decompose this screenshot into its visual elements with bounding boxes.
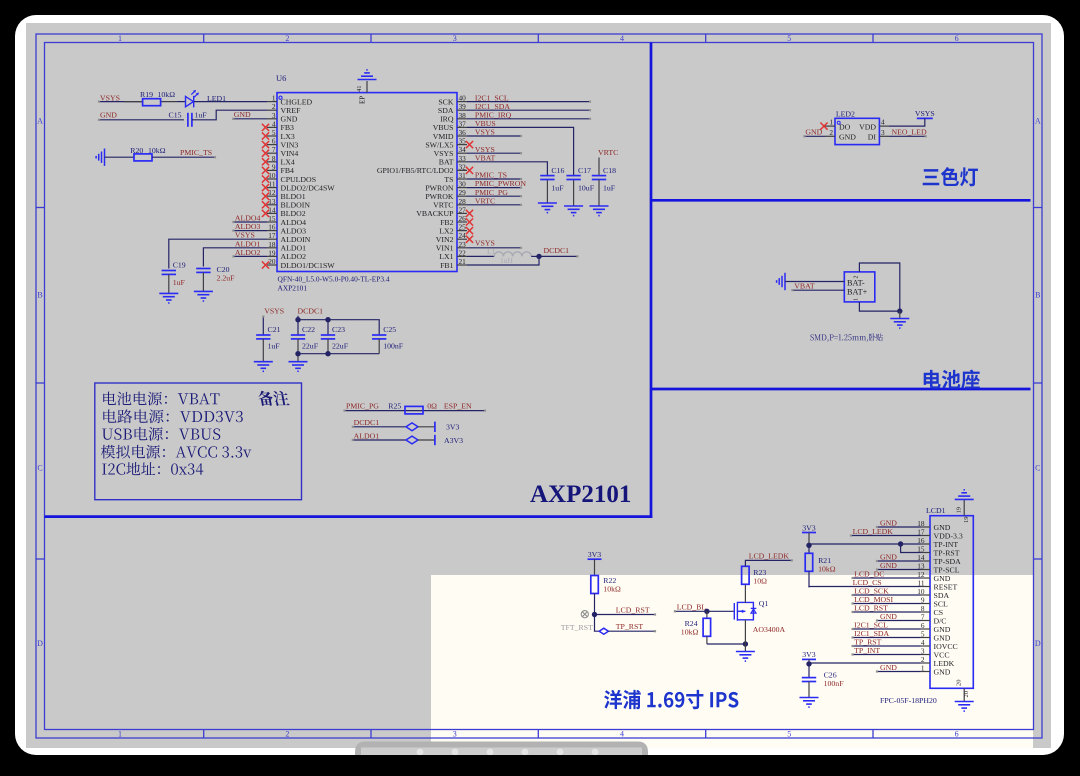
ground C20 [194,291,213,301]
battery holder BT1 body [844,272,875,302]
svg-text:A3V3: A3V3 [444,436,463,445]
svg-text:GND: GND [934,667,951,676]
resistor R23 [742,566,750,584]
wire ALDO3 to pin 16 [233,230,267,232]
svg-text:6: 6 [955,34,959,43]
svg-text:2: 2 [285,34,289,43]
wire jumper to 3V3 bar [418,426,435,428]
svg-text:VSYS: VSYS [475,128,495,137]
svg-text:VBAT: VBAT [794,282,815,291]
wire ALDO4 to pin 15 [233,221,267,223]
section divider AXP2101/bottom [45,515,653,518]
svg-text:C23: C23 [332,325,345,334]
wire LCD_LEDK LCD1 pin 17 [851,535,921,537]
wire GND LCD1 pin 13 [877,569,921,571]
wire ground to R20 [105,156,135,158]
svg-text:PMIC_TS: PMIC_TS [180,148,212,157]
LCD1 pin stubs [921,527,930,672]
wire LCD_DC LCD1 pin 12 [853,577,921,579]
wire I2C1_SCL LCD1 pin 6 [853,628,921,630]
U6 no-connect marks right pins 35 32 27 26 25 24 [466,141,473,243]
wire DCDC1 to jumper [353,426,406,428]
jumper diamond DCDC1-3V3 [406,423,418,431]
capacitor C17 [573,180,575,207]
svg-text:GND: GND [100,111,117,120]
wire LED1 to U6 pin 1 [194,101,267,103]
svg-text:10kΩ: 10kΩ [158,90,176,99]
svg-text:1uF: 1uF [268,342,281,351]
svg-text:DO: DO [839,122,851,131]
capacitor C16 [546,180,548,204]
svg-text:3: 3 [453,34,457,43]
svg-text:LED2: LED2 [836,109,855,118]
svg-text:QFN-40_L5.0-W5.0-P0.40-TL-EP3.: QFN-40_L5.0-W5.0-P0.40-TL-EP3.4 [278,275,390,284]
ground C16 [538,203,557,213]
svg-text:4: 4 [881,117,885,126]
ground C18 [590,206,609,216]
svg-text:DI: DI [868,133,877,142]
svg-text:LCD_RST: LCD_RST [616,606,650,615]
svg-text:C21: C21 [268,325,281,334]
svg-text:GND: GND [880,663,897,672]
svg-text:VBAT: VBAT [475,153,496,162]
resistor R25 [405,406,423,414]
section title 三色灯 [923,167,978,186]
wire LCD_BL to Q1 gate [675,610,734,612]
wire jumper to A3V3 bar [418,439,435,441]
svg-text:10kΩ: 10kΩ [603,585,621,594]
svg-text:20: 20 [956,680,963,687]
wire 3V3 to R21 node [808,533,810,546]
wire junction to DCDC1 stub [539,255,577,257]
wire LCD1 pin 15 TP-RST riser [901,544,921,553]
LED LED1 [186,90,199,107]
ground BT1 [899,311,901,318]
svg-text:FPC-05F-18PH20: FPC-05F-18PH20 [880,696,937,705]
svg-text:VSYS: VSYS [915,109,935,118]
capacitor C25 [372,335,386,339]
wire LCD_RST LCD1 pin 8 [853,611,921,613]
LCD1 pin names [934,523,963,677]
svg-text:LCD_LEDK: LCD_LEDK [853,527,894,536]
svg-text:NEO_LED: NEO_LED [892,128,927,137]
svg-text:C18: C18 [603,166,616,175]
wire LCD1 pin 16 TP-INT to R21 node [809,543,921,545]
svg-text:U6: U6 [276,73,286,83]
svg-text:DLDO1/DC1SW: DLDO1/DC1SW [281,261,336,270]
svg-text:C25: C25 [383,325,396,334]
junction TP-INT/TP-RST [898,541,903,546]
wire pin 21 FB1 to junction [467,256,539,265]
resistor R20 [134,154,152,161]
svg-text:C15: C15 [169,111,182,120]
U6 pin numbers left [268,94,276,266]
wire BT1 bottom loop [859,302,899,311]
wire pin 29 PMIC_PG [467,195,521,197]
svg-text:D: D [37,639,43,648]
svg-text:TP_RST: TP_RST [616,622,644,631]
svg-text:B: B [1035,291,1040,300]
wire Q1 drain to R23 [744,585,746,603]
svg-text:ALDO1: ALDO1 [354,432,380,441]
wire junction to LCD_RST stub [595,614,656,616]
svg-text:1: 1 [854,298,860,301]
junction R24 top [704,609,709,614]
svg-text:A: A [1035,117,1041,126]
ground at BT1 [777,273,785,290]
wire LCD_CS R21 to LCD1 pin 11 [809,586,921,589]
wire Q1 source to ground [744,620,746,652]
svg-text:VRTC: VRTC [475,196,495,205]
svg-text:2.2uF: 2.2uF [217,274,236,283]
svg-text:GND: GND [839,133,856,142]
wire TP_RST LCD1 pin 4 [853,645,921,647]
U6 pin names left [281,97,336,269]
svg-text:EP: EP [359,96,367,104]
ground at R20 [96,149,104,166]
note SMD footprint text [810,333,882,341]
wire pin 17 to C19 [169,239,267,268]
svg-text:10kΩ: 10kΩ [818,564,836,573]
jumper diamond ALDO1-A3V3 [406,436,418,444]
wire ground to BAT- [785,281,844,283]
wire 3V3 to R22 [594,559,596,575]
wire ALDO2 to pin 19 [233,255,267,257]
section divider vertical [650,43,653,519]
svg-text:100nF: 100nF [383,342,404,351]
wire TP_INT LCD1 pin 3 [853,654,921,656]
wire R19 to LED1 [177,101,186,103]
svg-text:10Ω: 10Ω [753,577,767,586]
wire pin 31 PMIC_TS [467,178,521,180]
LCD1 pin 20 ground stub [963,688,965,701]
svg-text:TP_INT: TP_INT [854,646,880,655]
svg-text:FB1: FB1 [440,261,454,270]
ground LCD1 pin 19 [955,490,974,500]
note box 备注 [95,383,302,500]
capacitor C15 [188,113,192,127]
svg-text:R20: R20 [130,146,143,155]
svg-text:VSYS: VSYS [264,307,284,316]
svg-text:3V3: 3V3 [802,650,816,659]
svg-text:VSYS: VSYS [100,93,120,102]
svg-text:6: 6 [955,730,959,739]
resistor R22 [591,576,599,594]
svg-text:10kΩ: 10kΩ [681,627,699,636]
wire C15 to U6 pin 2 [192,110,267,120]
svg-text:1uH: 1uH [500,256,514,265]
svg-text:BAT-: BAT- [847,279,865,288]
svg-text:VDD: VDD [859,122,876,131]
svg-text:C17: C17 [578,166,591,175]
wire LCD_MOSI LCD1 pin 9 [853,603,921,605]
svg-text:AXP2101: AXP2101 [530,481,631,508]
svg-text:5: 5 [787,730,791,739]
svg-text:R19: R19 [140,90,153,99]
svg-text:L1: L1 [487,247,496,256]
ground EP [358,70,377,80]
svg-text:LCD_LEDK: LCD_LEDK [749,552,790,561]
wire LED2 VDD to VSYS [889,118,925,126]
wire R24 to Q1 source [707,643,746,645]
LCD1 pin numbers [917,519,925,673]
junction C23 top [325,317,330,322]
capacitor C23 [321,335,335,339]
U6 EP pin 41 to ground [366,81,368,93]
no-connect X LED2 pin 1 [820,123,827,130]
svg-text:GPIO1/FB5/RTC/LDO2: GPIO1/FB5/RTC/LDO2 [377,166,454,175]
svg-text:22uF: 22uF [332,342,349,351]
wire bottom rail [298,353,379,355]
wire R22 to LCD_RST junction [594,594,596,615]
svg-text:1uF: 1uF [173,278,186,287]
svg-text:1uF: 1uF [551,183,564,192]
wire pin 23 VSYS [467,247,521,249]
wire 3V3 to LEDK node [808,659,810,664]
svg-text:20: 20 [963,691,970,698]
svg-text:DCDC1: DCDC1 [354,418,380,427]
ground C19 [159,293,178,303]
capacitor C22 [291,335,305,339]
svg-text:5: 5 [787,34,791,43]
svg-text:R25: R25 [388,402,401,411]
svg-text:3V3: 3V3 [446,423,460,432]
svg-text:Q1: Q1 [759,599,769,608]
svg-text:C19: C19 [173,260,186,269]
svg-text:4: 4 [620,730,624,739]
wire diamond to TP_RST stub [608,630,655,632]
junction C22 bottom [295,351,300,356]
wire GND LCD1 pin 18 [877,526,921,528]
svg-text:C: C [37,464,42,473]
wire R20 to PMIC_TS [152,156,215,158]
svg-text:A: A [37,117,43,126]
wire pin 18 to C20 [203,248,267,267]
junction R21 top [806,543,811,548]
wire pin 40 I2C1_SCL [467,101,590,103]
svg-text:VRTC: VRTC [598,148,618,157]
inductor L1 [467,255,494,257]
svg-text:3: 3 [453,730,457,739]
svg-text:22uF: 22uF [302,342,319,351]
junction Q1 source [743,641,748,646]
wire L1 to DCDC1 junction [531,255,539,257]
wire pin 38 PMIC_IRQ [467,118,590,120]
wire GND to U6 pin 3 [233,118,267,120]
connector LCD1 body [930,516,973,689]
wire pin 28 VRTC [467,204,521,206]
svg-text:GND: GND [234,110,251,119]
section divider 电池座/LCD [651,388,1031,391]
svg-text:VSYS: VSYS [235,231,255,240]
wire GND LCD1 pin 7 [877,620,921,622]
U6 pin numbers right [459,94,467,266]
svg-text:1: 1 [118,34,122,43]
svg-text:DCDC1: DCDC1 [298,307,324,316]
wire LEDK node to LCD1 pin 2 [809,662,921,664]
wire GND to LED2 pin 2 [804,135,825,137]
wire pin 36 VSYS [467,135,521,137]
wire PMIC_PG to R25 [345,410,486,412]
svg-text:PMIC_PG: PMIC_PG [346,402,379,411]
U6 pin stubs right [457,102,467,265]
junction DCDC1 [536,254,541,259]
svg-text:1: 1 [118,730,122,739]
svg-text:AO3400A: AO3400A [753,625,786,634]
jumper diamond TP_RST [599,628,608,634]
svg-text:100nF: 100nF [824,679,845,688]
ground Q1 [736,652,755,662]
wire pin 30 PMIC_PWRON [467,187,521,189]
IC LED2 body [835,118,879,144]
capacitor C20 [196,269,210,273]
LCD1 pin 19 ground stub [963,499,965,515]
wire junction down to TP_RST [595,615,600,632]
resistor R21 [808,545,810,553]
svg-text:1: 1 [829,117,833,126]
resistor R24 [706,611,708,618]
capacitor C26 [802,678,816,682]
wire ALDO1 to jumper [353,439,406,441]
svg-text:C: C [1035,464,1040,473]
junction C23 bottom [325,351,330,356]
resistor R19 [124,101,143,103]
svg-text:TFT_RST: TFT_RST [561,623,593,632]
section title 电池座 [924,370,980,389]
svg-text:1uF: 1uF [195,111,208,120]
svg-text:0Ω: 0Ω [427,402,437,411]
wire C23 riser top [327,320,329,335]
wire pin 33 VBAT to C16 [467,162,547,176]
svg-text:2: 2 [854,276,860,279]
svg-text:3V3: 3V3 [802,523,816,532]
IC U6 AXP2101 body [277,93,457,272]
svg-text:D: D [1035,639,1041,648]
note title 备注 [257,391,290,406]
section title 洋浦 1.69寸 IPS [604,690,738,709]
svg-text:BAT+: BAT+ [847,288,868,297]
wire LED2 DI to NEO_LED [889,135,926,137]
wire R23 to LCD_LEDK [745,560,791,566]
wire LCD_SCK LCD1 pin 10 [853,594,921,596]
svg-text:2: 2 [285,730,289,739]
ground C22 [289,362,308,372]
svg-text:LCD1: LCD1 [926,506,946,515]
svg-text:ESP_EN: ESP_EN [444,402,472,411]
svg-text:41: 41 [356,86,363,93]
svg-text:19: 19 [963,517,970,524]
wire pin 34 VSYS [467,152,521,154]
wire GND LCD1 pin 1 [877,671,921,673]
test point marker [581,611,588,618]
wire VSYS to R19 [99,101,143,103]
U6 no-connect marks left pins 4-14 and 20 [262,124,269,269]
capacitor C19 [162,271,176,275]
svg-text:ALDO2: ALDO2 [235,248,261,257]
wire BT1 top loop [859,263,899,311]
wire I2C1_SDA LCD1 pin 5 [853,637,921,639]
wire pin 39 I2C1_SDA [467,109,590,111]
junction LEDK [806,661,811,666]
ground LCD1 pin 20 [955,702,974,712]
svg-text:C22: C22 [302,325,315,334]
svg-text:B: B [37,291,42,300]
svg-text:3V3: 3V3 [588,550,602,559]
svg-text:GND: GND [805,128,822,137]
svg-text:2: 2 [829,128,833,137]
junction BT1 ground [897,308,902,313]
junction C22 top [295,317,300,322]
wire GND LCD1 pin 14 [877,560,921,562]
wire DCDC1 rail top [297,316,299,335]
U6 pin stubs left [267,102,277,265]
junction LCD_RST [592,612,597,617]
svg-text:1uF: 1uF [603,183,616,192]
svg-text:3: 3 [881,128,885,137]
svg-text:AXP2101: AXP2101 [278,284,308,293]
ground C17 [564,206,583,216]
transistor Q1 [734,602,756,621]
wire VBAT to BAT+ [792,289,844,291]
svg-text:DCDC1: DCDC1 [544,246,570,255]
svg-text:10uF: 10uF [578,183,595,192]
svg-text:4: 4 [620,34,624,43]
wire VSYS to C21 [262,316,264,335]
svg-text:C16: C16 [551,166,564,175]
LED2 pin stubs [825,125,835,127]
capacitor C18 [592,176,606,180]
wire LEDK node to C26 [808,664,810,678]
wire GND to C15 [99,119,184,121]
U6 pin names right [377,97,454,269]
svg-text:19: 19 [956,507,963,514]
capacitor C21 [256,335,270,339]
ground C26 [800,698,819,708]
section divider 三色灯/电池座 [651,199,1031,202]
wire pin 37 VBUS to C17 [467,127,574,175]
svg-text:10kΩ: 10kΩ [148,146,166,155]
ground C21 [254,362,273,372]
svg-text:LCD_BL: LCD_BL [677,603,707,612]
